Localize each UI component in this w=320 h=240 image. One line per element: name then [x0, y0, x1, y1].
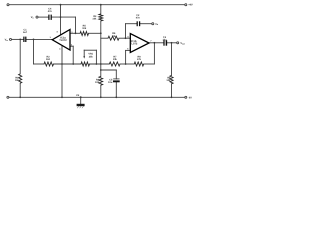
wire IC1a non-inv pin stub	[70, 45, 73, 47]
pot wiper arrowhead	[83, 56, 85, 58]
capacitor C1	[24, 37, 26, 42]
wire R5 to bias column	[89, 32, 101, 34]
wire feedback riser to output	[153, 43, 155, 64]
svg-text:0V: 0V	[189, 96, 192, 99]
wire C3 to Vout terminal	[167, 42, 177, 44]
node VB2 terminal	[152, 23, 154, 25]
wire post-C1 node down to feedback rail	[33, 39, 35, 64]
wire IC1b output to C3	[149, 42, 163, 44]
svg-text:1k0: 1k0	[46, 58, 51, 61]
resistor R7 horizontal	[109, 62, 120, 66]
wire C5 top link	[101, 69, 117, 71]
wire pot wiper arrow stem	[83, 50, 85, 56]
wire C1 to IC1a output apex	[26, 38, 52, 40]
svg-text:47n: 47n	[48, 10, 53, 13]
svg-text:TL072: TL072	[59, 39, 67, 42]
svg-text:10k: 10k	[82, 27, 87, 30]
wire C4 to inverting branch	[52, 16, 76, 18]
wire VB to C4	[38, 16, 48, 18]
ground symbol earth	[77, 104, 85, 108]
wire rail R2 to pot	[54, 63, 82, 65]
wire pot to R7	[90, 63, 110, 65]
wire top supply rail	[9, 4, 185, 6]
resistor R6 horizontal	[108, 36, 119, 40]
svg-text:4u7: 4u7	[23, 31, 28, 34]
wire input to C1	[12, 38, 24, 40]
svg-text:10u: 10u	[108, 81, 113, 84]
svg-text:10k: 10k	[112, 35, 117, 38]
svg-text:10k: 10k	[113, 58, 118, 61]
resistor R4 vertical	[99, 76, 103, 85]
node Vout terminal	[177, 42, 179, 44]
wire bias to R6	[101, 37, 108, 39]
wire IC1b non-inv pin stub	[126, 49, 131, 51]
capacitor C2	[137, 21, 139, 26]
resistor R8 horizontal	[134, 62, 144, 66]
capacitor C3	[164, 40, 166, 46]
node +V terminal top-right	[185, 4, 187, 6]
svg-text:10u: 10u	[162, 38, 167, 41]
capacitor C4	[49, 15, 51, 20]
wire bias divider column	[100, 5, 102, 14]
wire inverting pin to R5	[70, 32, 80, 34]
svg-text:1M: 1M	[15, 79, 18, 82]
capacitor C5 electrolytic	[113, 79, 120, 82]
op-amp IC1b	[130, 34, 149, 53]
junction dots	[19, 4, 172, 99]
node Vin terminal	[10, 38, 12, 40]
resistor P1 pot track horizontal	[81, 62, 90, 66]
svg-text:47n: 47n	[136, 17, 141, 20]
node 0V terminal bottom-left	[7, 96, 9, 98]
resistor R5 horizontal	[80, 32, 89, 36]
svg-text:10k: 10k	[166, 79, 171, 82]
ground stem	[80, 97, 82, 104]
op-amp IC1a (output faces left)	[52, 30, 70, 51]
wire R8 to output corner	[144, 63, 155, 65]
wire R6 to IC1b input	[119, 37, 130, 39]
resistor R3 vertical	[99, 14, 103, 21]
wire C2 branch up	[125, 24, 127, 39]
resistor R2 horizontal	[44, 62, 54, 66]
svg-text:47k: 47k	[137, 58, 142, 61]
wire input shunt down to R1	[19, 39, 21, 74]
wire ground rail	[9, 96, 185, 98]
svg-text:Vin: Vin	[5, 39, 8, 42]
svg-text:Vout: Vout	[180, 42, 185, 45]
wire pot wiper top link	[84, 49, 96, 51]
wire V- power pin IC1a down to ground rail	[61, 45, 63, 97]
svg-text:+9V: +9V	[188, 4, 193, 7]
wire R7 to R8	[120, 63, 134, 65]
wire corner down to R5 line	[75, 17, 77, 33]
svg-text:10k: 10k	[92, 18, 97, 21]
svg-text:TL072: TL072	[130, 43, 138, 46]
wire R9 down leg	[171, 43, 173, 76]
node 0V terminal bottom-right	[185, 96, 187, 98]
node +V terminal top-left	[7, 4, 9, 6]
node VB terminal	[36, 16, 38, 18]
resistor R1 vertical	[19, 74, 22, 83]
wire V+ power pin IC1a	[60, 5, 62, 35]
wire feedback rail left	[34, 63, 45, 65]
svg-text:10k: 10k	[95, 81, 100, 84]
svg-text:25k: 25k	[89, 56, 94, 59]
resistor R9 vertical	[170, 75, 173, 83]
wire C2 to VB2 terminal	[140, 23, 152, 25]
